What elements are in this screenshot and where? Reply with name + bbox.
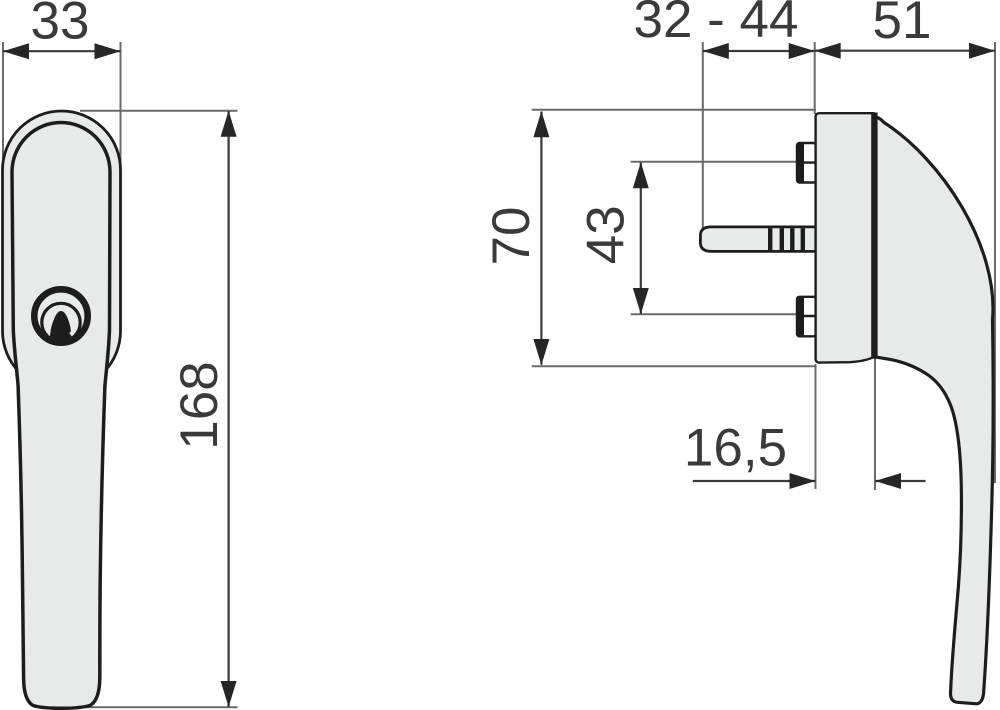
svg-text:32 - 44: 32 - 44 bbox=[633, 0, 798, 49]
svg-text:16,5: 16,5 bbox=[684, 419, 787, 478]
svg-text:33: 33 bbox=[31, 0, 90, 51]
svg-text:70: 70 bbox=[482, 207, 541, 266]
svg-text:43: 43 bbox=[577, 205, 636, 264]
svg-text:168: 168 bbox=[170, 361, 229, 449]
svg-text:51: 51 bbox=[873, 0, 932, 50]
